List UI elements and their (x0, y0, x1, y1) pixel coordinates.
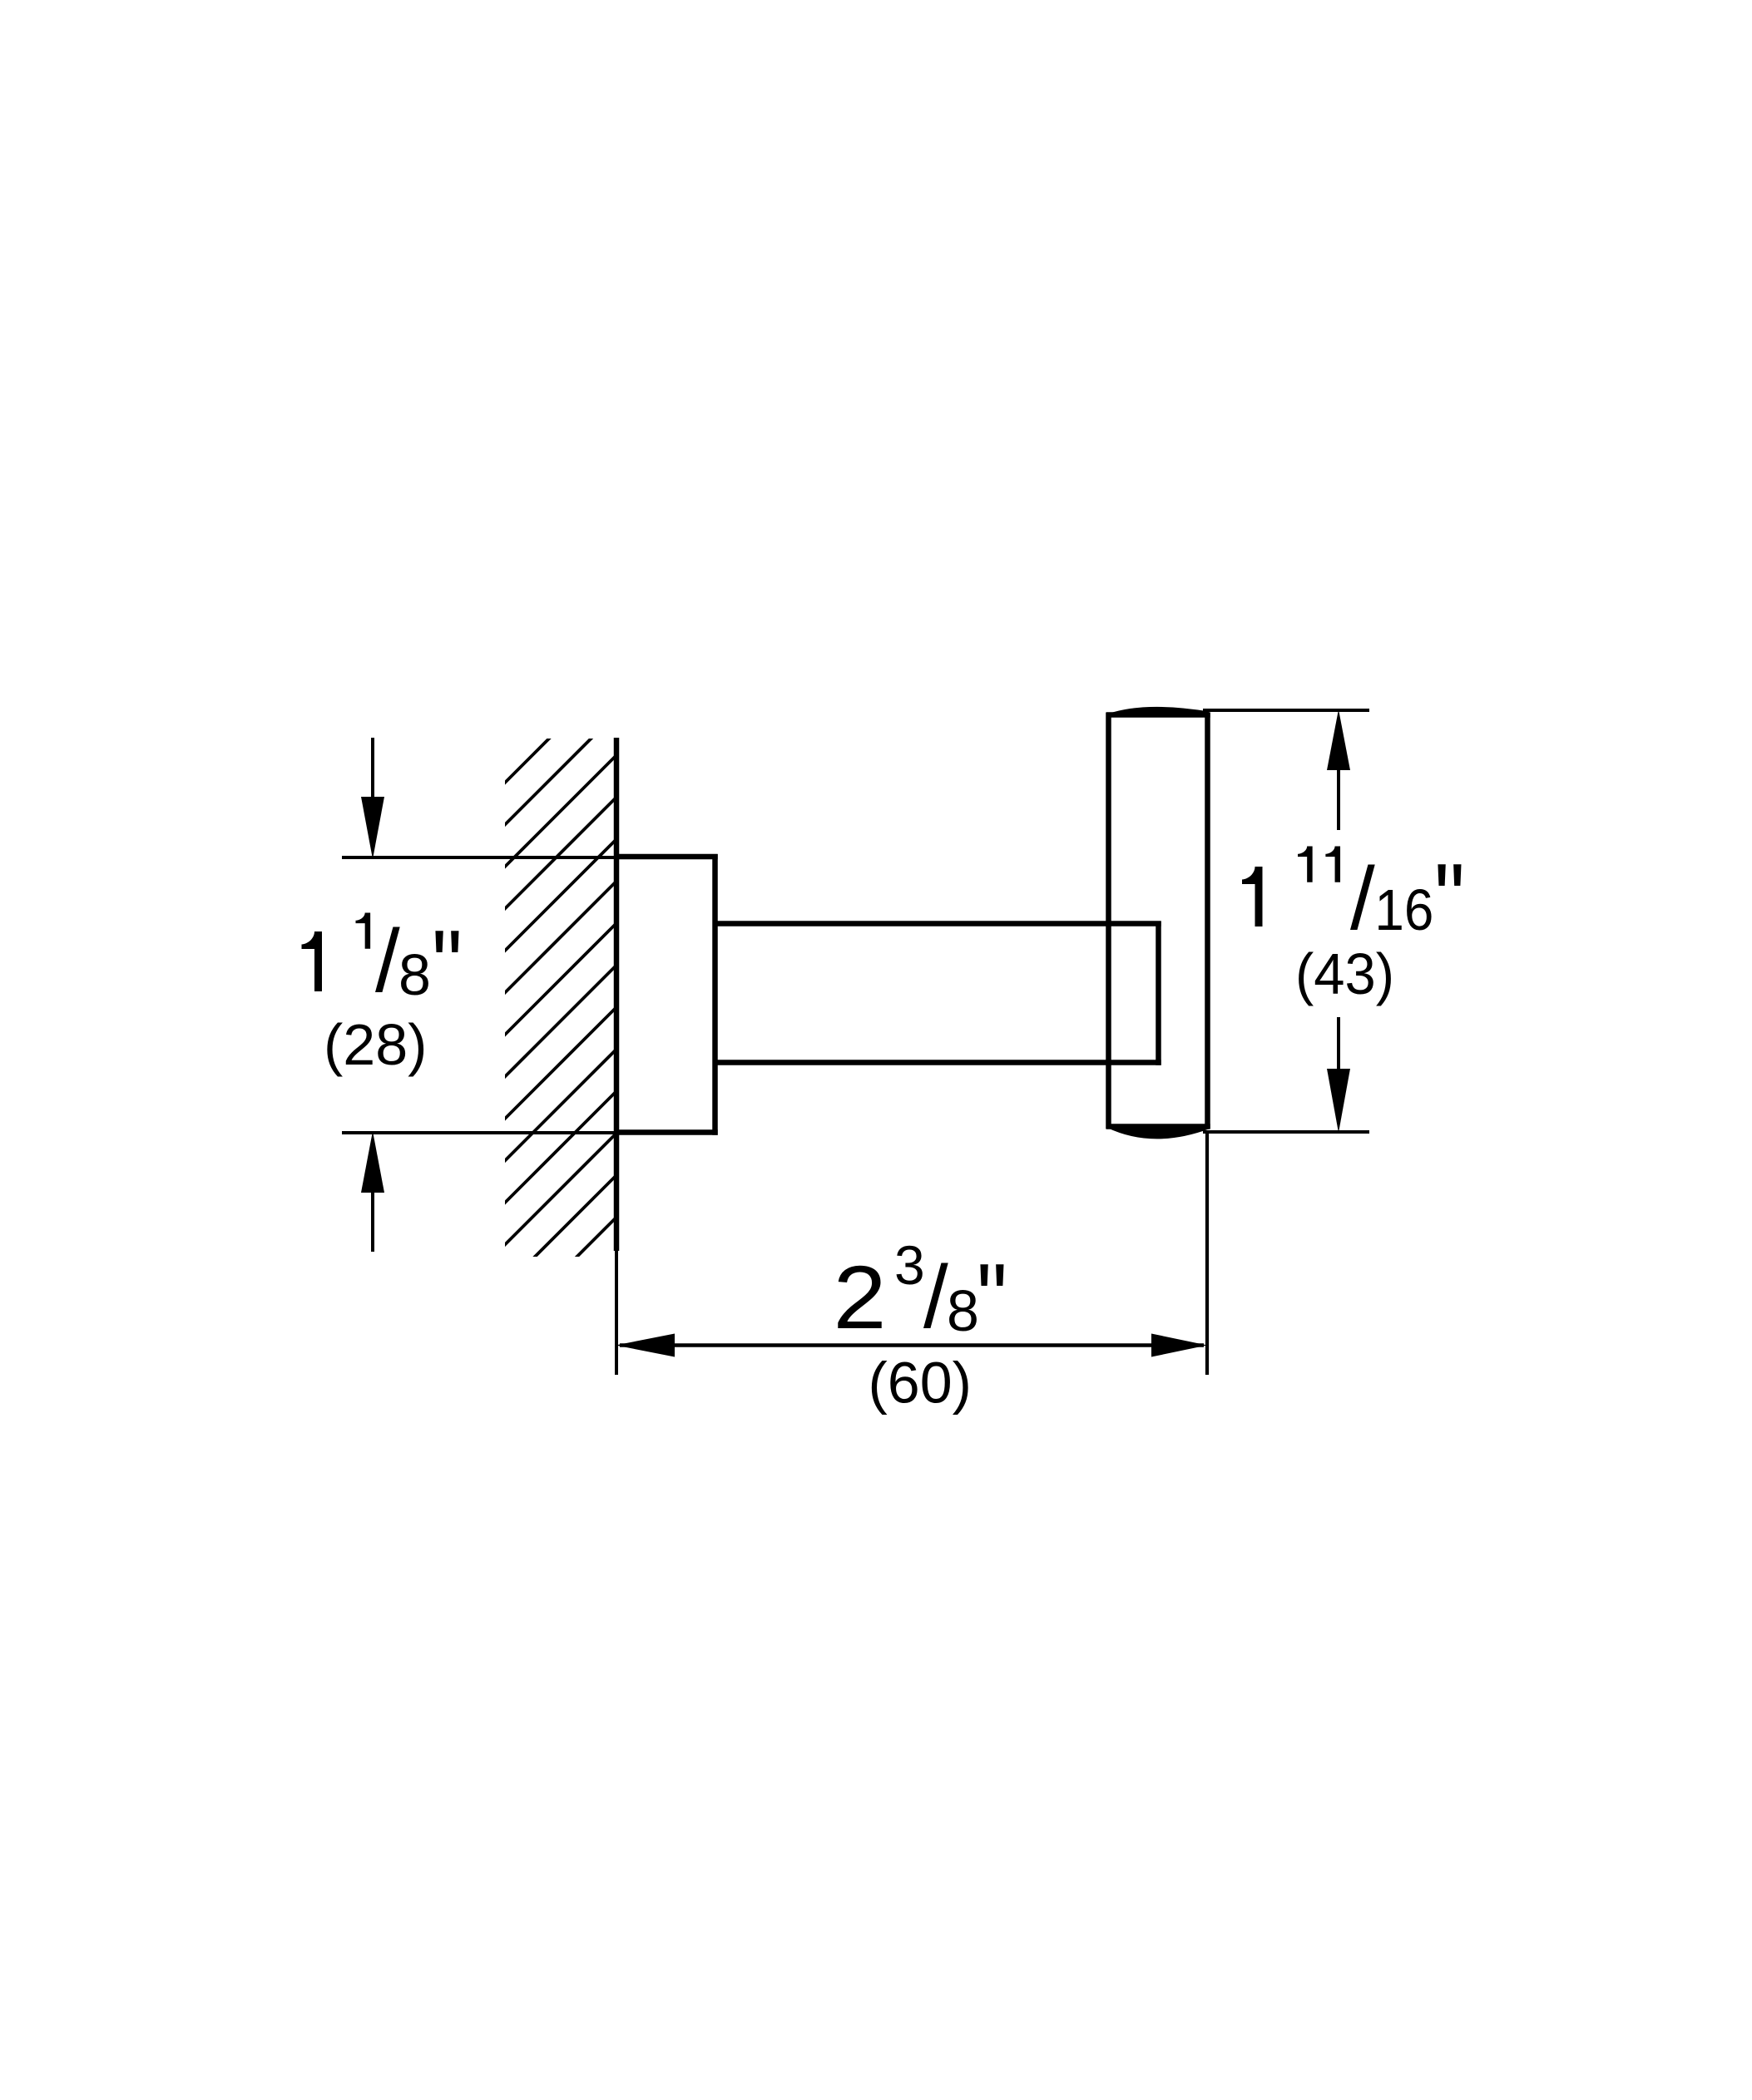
svg-text:16: 16 (1374, 877, 1433, 942)
mounting plate (614, 854, 718, 1135)
hook arm (713, 922, 1161, 1065)
dim 28: extension line bottom (342, 1131, 616, 1134)
svg-text:/: / (1350, 848, 1375, 948)
dim 28: upper arrow tail (371, 738, 374, 799)
dim 60: dimension line (620, 1343, 1204, 1347)
dim 43: extension line top (1203, 709, 1369, 712)
dim 28: lower arrow tail (371, 1193, 374, 1252)
svg-text:8: 8 (947, 1278, 979, 1343)
hook knob (end plate) (1106, 713, 1210, 1129)
svg-text:8: 8 (398, 942, 431, 1007)
dim 28: imperial text 1 1/8" (302, 910, 463, 1020)
wall line (614, 738, 620, 1251)
svg-text:3: 3 (894, 1234, 925, 1296)
svg-text:(43): (43) (1295, 941, 1394, 1006)
svg-text:(28): (28) (324, 1012, 427, 1077)
svg-text:": " (977, 1243, 1007, 1354)
svg-text:/: / (923, 1247, 948, 1346)
svg-text:2: 2 (834, 1247, 887, 1347)
wall hatching (463, 658, 630, 1371)
dim 60: right extension line (below knob) (1205, 1134, 1209, 1375)
dim 60: imperial text 2 3/8" (834, 1234, 1007, 1353)
dim 43: imperial text 1 11/16" (1242, 843, 1465, 954)
svg-text:(60): (60) (869, 1351, 972, 1416)
dim 43: extension line bottom (1203, 1130, 1369, 1134)
dim 43: upper arrow tail (1337, 770, 1340, 830)
dim 43: lower arrow tail (1337, 1017, 1340, 1069)
dim 43: upper arrowhead (points up) (1327, 709, 1350, 770)
dim 60: right arrowhead (points right) (1151, 1334, 1207, 1357)
svg-text:": " (432, 910, 463, 1020)
svg-text:/: / (375, 911, 400, 1010)
wall extension line (to bottom dimension) (615, 1251, 618, 1375)
dim 28: lower arrowhead (points up) (361, 1131, 384, 1193)
hook knob bottom cap arc (1107, 1124, 1209, 1139)
dim 60: left arrowhead (points left) (616, 1334, 675, 1357)
dim 28: upper arrowhead (points down) (361, 797, 384, 859)
hook knob top cap arc (1107, 707, 1209, 717)
dim 28: extension line top (342, 856, 616, 859)
dim 43: lower arrowhead (points down) (1327, 1069, 1350, 1133)
svg-text:": " (1434, 843, 1465, 954)
